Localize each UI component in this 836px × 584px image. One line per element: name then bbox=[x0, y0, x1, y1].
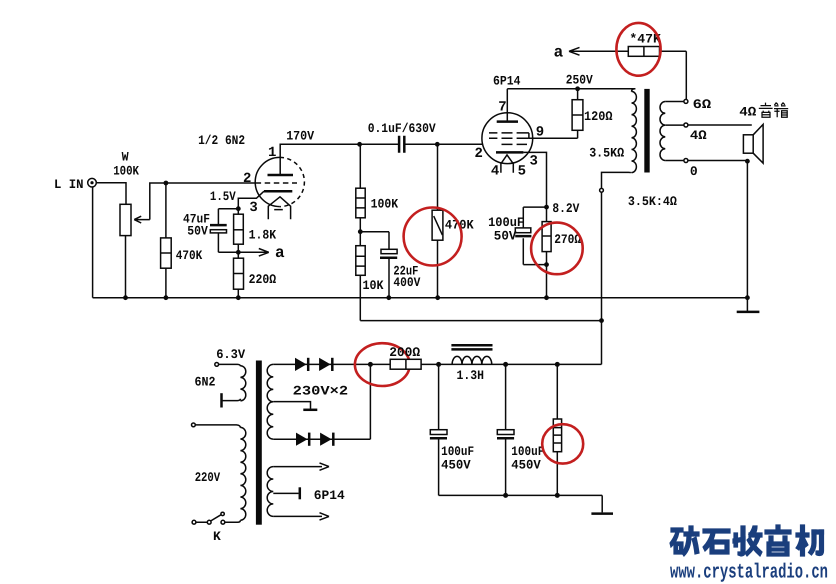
mains winding bottom lead bbox=[225, 520, 241, 522]
heater winding 6N2 coil bbox=[219, 364, 241, 366]
svg-text:6P14: 6P14 bbox=[493, 73, 521, 88]
resistor 270R cathode bbox=[546, 207, 548, 298]
resistor 470K grid leak bbox=[165, 183, 167, 298]
svg-text:100K: 100K bbox=[113, 164, 139, 179]
svg-text:www.crystalradio.cn: www.crystalradio.cn bbox=[670, 562, 828, 584]
node decoupling junction bbox=[358, 229, 363, 234]
red circle marker on bleeder bbox=[542, 424, 583, 463]
node grid2 junction bbox=[435, 142, 440, 147]
red circle marker on 470K bbox=[404, 208, 462, 266]
V2 plate bar bbox=[497, 120, 518, 123]
svg-text:4: 4 bbox=[491, 164, 499, 180]
svg-text:3.5K:4Ω: 3.5K:4Ω bbox=[628, 194, 677, 209]
heater 6P14 center tap bar bbox=[273, 492, 298, 494]
svg-text:0: 0 bbox=[690, 164, 698, 179]
V1 grid dashes bbox=[256, 182, 297, 184]
HV winding 230Vx2 coil bbox=[267, 364, 273, 439]
secondary tap 4ohm bbox=[665, 124, 684, 126]
HV bottom wire to rectifier bbox=[273, 364, 370, 439]
heater winding 6N2 bottom lead and tap bar bbox=[222, 399, 241, 401]
svg-text:8.2V: 8.2V bbox=[552, 201, 579, 216]
svg-text:470K: 470K bbox=[176, 248, 203, 263]
heater 6P14 top arrow bbox=[273, 463, 329, 470]
svg-text:5: 5 bbox=[518, 164, 526, 180]
svg-text:6Ω: 6Ω bbox=[693, 97, 712, 112]
char kuang bbox=[670, 526, 699, 556]
resistor 100K plate load bbox=[359, 144, 361, 231]
HV top wire to rectifier bbox=[273, 363, 370, 365]
char ji bbox=[796, 525, 824, 556]
bleeder resistor circled bbox=[556, 364, 558, 495]
wire speaker to ground bus bbox=[746, 161, 748, 298]
output transformer primary coil bbox=[632, 91, 637, 172]
svg-text:a: a bbox=[275, 244, 285, 262]
diode D3 bbox=[296, 433, 308, 446]
svg-text:4Ω: 4Ω bbox=[690, 128, 707, 143]
switch K bbox=[192, 520, 196, 524]
ground symbol PSU bbox=[601, 495, 603, 512]
svg-text:230V×2: 230V×2 bbox=[293, 384, 349, 399]
capacitor 22uF/400V bbox=[381, 249, 397, 253]
resistor 220R bbox=[237, 252, 239, 297]
red ellipse marker on *47K bbox=[616, 23, 660, 76]
capacitor 100uF/50V bbox=[515, 228, 531, 233]
B+ riser wire bbox=[601, 192, 603, 364]
wire 0 tap to speaker ground bbox=[688, 160, 748, 162]
V1 plate lead to 170V bbox=[280, 144, 359, 175]
wire 250V rail bbox=[507, 88, 635, 90]
V2 plate lead pin7 bbox=[506, 89, 508, 122]
svg-text:7: 7 bbox=[498, 99, 506, 115]
wiper riser wire bbox=[150, 183, 256, 220]
V2 cathode lead bbox=[523, 152, 546, 207]
SECTION: amplifier top bbox=[54, 23, 763, 365]
resistor 470K grid2 leak bbox=[437, 144, 439, 297]
svg-text:0.1uF/630V: 0.1uF/630V bbox=[368, 121, 436, 136]
char shi bbox=[703, 529, 730, 554]
svg-text:250V: 250V bbox=[566, 73, 593, 88]
node cathode2 bottom junction bbox=[544, 262, 549, 267]
B+ filter rail bbox=[421, 363, 601, 365]
heater 6P14 bottom arrow bbox=[273, 513, 329, 520]
wire 170V to coupling cap bbox=[360, 143, 398, 145]
resistor 1.8K cathode bbox=[237, 209, 239, 253]
secondary tap 6ohm bbox=[665, 101, 684, 103]
wire to 22uF bbox=[360, 232, 389, 250]
HV center tap wire bbox=[273, 402, 310, 409]
wire cathode2 to cap bbox=[523, 207, 546, 228]
svg-text:170V: 170V bbox=[286, 128, 314, 143]
wire input to pot top bbox=[97, 183, 127, 205]
svg-text:50V: 50V bbox=[187, 223, 208, 238]
svg-text:3: 3 bbox=[249, 200, 257, 216]
capacitor 100uF/450V second bbox=[505, 364, 507, 429]
mains winding coil bbox=[195, 425, 240, 428]
diode D4 bbox=[320, 433, 332, 446]
resistor 200R bbox=[370, 363, 390, 365]
SECTION: watermark bbox=[670, 103, 828, 584]
char shou bbox=[733, 526, 762, 556]
node rectifier output junction bbox=[368, 362, 373, 367]
secondary tap 0 bbox=[665, 160, 684, 162]
node bleeder junction bbox=[555, 362, 560, 367]
input terminal L IN bbox=[88, 178, 97, 187]
svg-text:1.5V: 1.5V bbox=[210, 189, 236, 204]
capacitor 100uF/450V first bbox=[438, 364, 440, 429]
diode D1 bbox=[295, 358, 307, 371]
V2 heater bbox=[501, 155, 513, 173]
svg-text:3.5KΩ: 3.5KΩ bbox=[589, 145, 624, 160]
wire cathode node to cap bbox=[218, 209, 238, 225]
svg-text:K: K bbox=[213, 529, 221, 544]
svg-text:W: W bbox=[122, 149, 129, 164]
potentiometer W 100K bbox=[120, 204, 131, 235]
resistor *47K feedback bbox=[628, 47, 659, 57]
primary bottom lead to B+ riser bbox=[602, 172, 632, 188]
output transformer core bbox=[644, 89, 649, 173]
svg-text:1: 1 bbox=[268, 145, 276, 161]
char yin bbox=[765, 525, 791, 556]
resistor 120R screen bbox=[529, 89, 578, 139]
feedback arrow bbox=[569, 47, 628, 55]
svg-text:1.8K: 1.8K bbox=[249, 228, 277, 243]
triode V1 6N2 envelope bbox=[255, 157, 280, 206]
svg-text:4Ω: 4Ω bbox=[739, 104, 756, 119]
red ellipse marker on rectifier node bbox=[355, 343, 410, 386]
red circle marker on 270R bbox=[531, 223, 583, 275]
svg-text:2: 2 bbox=[243, 171, 251, 187]
svg-text:1.3H: 1.3H bbox=[457, 368, 485, 383]
svg-text:120Ω: 120Ω bbox=[584, 109, 613, 124]
svg-text:400V: 400V bbox=[393, 275, 420, 290]
choke 1.3H coil bbox=[452, 356, 492, 364]
svg-text:50V: 50V bbox=[494, 228, 517, 243]
node filter cap1 junction bbox=[436, 362, 441, 367]
svg-text:2: 2 bbox=[475, 146, 483, 162]
svg-text:450V: 450V bbox=[511, 458, 541, 473]
PSU ground rail bbox=[439, 494, 603, 496]
node grid1 junction bbox=[164, 181, 169, 186]
ground bus top section bbox=[93, 297, 748, 299]
SECTION: power supply bbox=[192, 343, 614, 544]
svg-text:220V: 220V bbox=[195, 470, 221, 485]
svg-text:3: 3 bbox=[530, 154, 538, 170]
node 8.2V junction bbox=[544, 205, 549, 210]
svg-text:100K: 100K bbox=[371, 197, 399, 212]
ground symbol right bbox=[746, 298, 748, 311]
node a feedback junction bbox=[236, 250, 241, 255]
wire grid2 to tube bbox=[437, 143, 482, 145]
heater winding 6.3V 6N2 terminal bbox=[215, 363, 219, 367]
power transformer core bbox=[256, 361, 262, 525]
V2 cathode bar bbox=[496, 151, 523, 154]
node cathode1 junction bbox=[236, 206, 241, 211]
bus junction dots bbox=[123, 295, 128, 300]
node speaker ground junction bbox=[745, 159, 750, 164]
B+ branch wire to 10K bbox=[360, 320, 601, 322]
capacitor 0.1uF/630V coupling bbox=[399, 136, 404, 153]
connector circle on B+ riser bbox=[600, 188, 604, 192]
node B+ branch junction bbox=[599, 318, 604, 323]
V1 heater bbox=[268, 197, 290, 219]
choke 1.3H core bars bbox=[451, 345, 492, 349]
svg-text:220Ω: 220Ω bbox=[249, 272, 277, 287]
V1 plate bar bbox=[268, 174, 294, 177]
svg-text:6P14: 6P14 bbox=[314, 488, 345, 503]
node 250V junction bbox=[575, 86, 580, 91]
svg-text:450V: 450V bbox=[441, 458, 471, 473]
pentode V2 6P14 envelope bbox=[482, 113, 533, 164]
diode D2 bbox=[319, 358, 331, 371]
wire 4ohm tap to speaker bbox=[688, 124, 752, 126]
ground symbol center tap bbox=[303, 409, 317, 412]
svg-text:6N2: 6N2 bbox=[195, 375, 216, 390]
svg-text:L IN: L IN bbox=[54, 177, 84, 192]
heater winding 6P14 coil bbox=[267, 467, 273, 517]
V1 cathode lead bbox=[238, 191, 264, 209]
mains winding 220V terminal bbox=[192, 423, 196, 427]
svg-text:a: a bbox=[554, 43, 564, 61]
node filter cap2 junction bbox=[503, 362, 508, 367]
svg-text:6.3V: 6.3V bbox=[216, 347, 245, 362]
pot wiper arrow bbox=[134, 216, 150, 223]
V1 cathode bar bbox=[264, 190, 292, 193]
capacitor 47uF/50V bbox=[210, 224, 227, 227]
small label CJK yinxiang (speaker) bbox=[759, 103, 788, 118]
svg-text:1/2 6N2: 1/2 6N2 bbox=[198, 133, 245, 148]
resistor 10K dropper bbox=[359, 232, 361, 321]
arrow to a bbox=[238, 249, 268, 257]
V2 screen grid dashes bbox=[489, 132, 529, 134]
node 170V junction bbox=[357, 142, 362, 147]
wire input ground drop bbox=[92, 187, 94, 298]
speaker 4ohm bbox=[743, 135, 753, 153]
output transformer secondary coil bbox=[660, 102, 665, 161]
watermark big CJK text kuang shi shou yin ji bbox=[670, 525, 824, 556]
svg-text:200Ω: 200Ω bbox=[389, 345, 420, 360]
svg-text:10K: 10K bbox=[363, 278, 384, 293]
